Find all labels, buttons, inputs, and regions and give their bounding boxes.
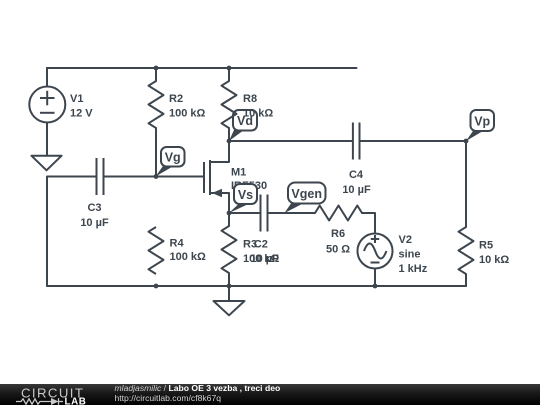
label C2 value	[251, 239, 280, 266]
label V2 value	[399, 234, 428, 275]
node Vp junction	[464, 139, 469, 144]
wire ground stem below bottom rail	[228, 286, 230, 301]
node Vg junction	[154, 174, 159, 179]
svg-text:LAB: LAB	[65, 396, 87, 405]
wire V2 bottom to bottom rail	[374, 269, 376, 287]
svg-text:10 kΩ: 10 kΩ	[243, 108, 273, 120]
wire C2 right plate to R6	[269, 212, 316, 214]
flag Vd (drawn under R8)	[229, 110, 257, 141]
node junction top rail R2	[154, 66, 159, 71]
wire R5 bottom to bottom rail	[465, 274, 467, 286]
wire R6 right to V2 top	[362, 213, 375, 234]
svg-text:sine: sine	[399, 249, 421, 261]
svg-text:10 µF: 10 µF	[80, 217, 109, 229]
resistor R6	[315, 206, 362, 221]
wire Vp node down to R5	[465, 141, 467, 227]
svg-text:M1: M1	[231, 167, 246, 179]
svg-text:R5: R5	[479, 240, 493, 252]
wire left drop from gate rail	[47, 177, 96, 287]
logo resistor-diode symbol	[16, 398, 63, 405]
wire R8 bottom to drain node	[228, 128, 230, 141]
svg-text:R6: R6	[331, 228, 345, 240]
label M1 value	[231, 167, 267, 193]
svg-text:R3: R3	[243, 239, 257, 251]
wire R2 bottom to Vg node	[155, 128, 157, 177]
node bottom rail R4	[154, 284, 159, 289]
svg-text:10 µF: 10 µF	[342, 184, 371, 196]
label R3 value	[243, 239, 280, 266]
capacitor C2	[261, 195, 268, 232]
resistor R3	[222, 226, 237, 273]
label R2 value	[169, 93, 206, 120]
flag Vp	[466, 110, 494, 141]
voltage source V1	[29, 87, 65, 123]
wire V1 top lead	[46, 68, 48, 87]
svg-text:100 kΩ: 100 kΩ	[170, 251, 207, 263]
resistor R4	[149, 227, 164, 274]
wire R8 top lead	[228, 68, 230, 81]
node bottom rail V2	[373, 284, 378, 289]
svg-text:Vgen: Vgen	[291, 187, 322, 201]
node Vd drain junction	[227, 139, 232, 144]
label R4 value	[170, 238, 207, 264]
svg-text:100 kΩ: 100 kΩ	[243, 253, 280, 265]
svg-text:R8: R8	[243, 93, 257, 105]
svg-text:C4: C4	[349, 169, 364, 181]
resistor R2	[149, 81, 164, 128]
svg-text:C3: C3	[87, 202, 101, 214]
wire V1 bottom lead to ground	[46, 123, 48, 156]
wire source node down to R3	[228, 213, 230, 226]
svg-text:10 kΩ: 10 kΩ	[479, 254, 509, 266]
svg-text:1 kHz: 1 kHz	[399, 263, 428, 275]
svg-text:12 V: 12 V	[70, 108, 93, 120]
transistor M1 source arrow	[212, 189, 222, 197]
wire top rail V1 to end	[47, 67, 357, 69]
wire source node to C2 left plate	[229, 212, 260, 214]
svg-text:R2: R2	[169, 93, 183, 105]
ground below R3	[214, 301, 245, 315]
svg-text:V2: V2	[399, 234, 412, 246]
resistor R5	[459, 227, 474, 274]
svg-text:http://circuitlab.com/cf8k67q: http://circuitlab.com/cf8k67q	[115, 393, 222, 403]
svg-text:mladjasmilic / Labo OE 3 vezba: mladjasmilic / Labo OE 3 vezba , treci d…	[115, 383, 281, 393]
flag Vs	[229, 184, 257, 213]
wire R2 branch x=156	[155, 68, 157, 81]
wire R3 bottom to bottom rail	[228, 273, 230, 286]
label R5 value	[479, 240, 509, 267]
transistor M1 NMOS	[204, 141, 229, 213]
node junction top rail R8	[227, 66, 232, 71]
flag Vgen	[285, 183, 326, 214]
svg-text:V1: V1	[70, 93, 83, 105]
capacitor C4	[353, 123, 360, 160]
label C3 value	[80, 202, 109, 229]
capacitor C3	[97, 158, 104, 195]
voltage source V2 sine	[358, 234, 393, 269]
svg-text:Vg: Vg	[165, 151, 181, 165]
label V1 value	[70, 93, 93, 120]
svg-text:Vp: Vp	[474, 115, 490, 129]
svg-text:R4: R4	[170, 238, 185, 250]
svg-text:100 kΩ: 100 kΩ	[169, 108, 206, 120]
node Vs source junction	[227, 211, 232, 216]
flag Vg	[156, 147, 185, 177]
svg-text:Vs: Vs	[238, 188, 253, 202]
resistor R8	[222, 81, 237, 128]
ground under V1	[31, 156, 61, 171]
svg-text:50 Ω: 50 Ω	[326, 244, 350, 256]
wire C4 right plate to Vp node	[361, 140, 467, 142]
label R6 value	[326, 228, 350, 256]
wire C3 right plate to MOSFET gate	[105, 176, 204, 178]
wire drain node to C4 left plate	[229, 140, 352, 142]
node bottom rail R3/ground	[227, 284, 232, 289]
wire bottom rail	[47, 285, 466, 287]
label C4 value	[342, 169, 371, 196]
label R8 value	[243, 93, 273, 120]
